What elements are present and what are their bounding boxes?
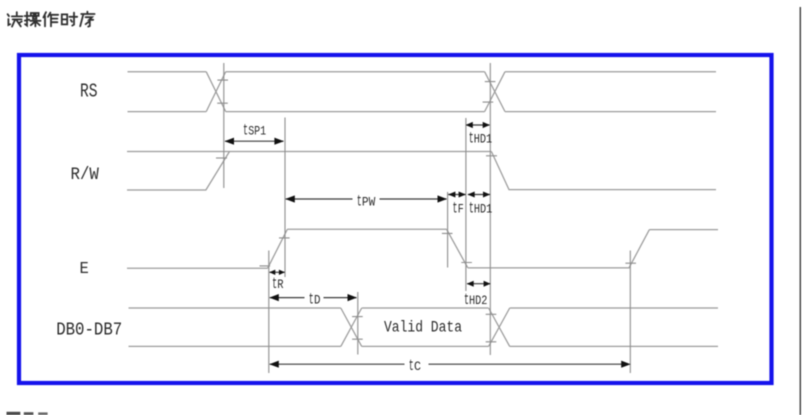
label tHD1 bottom <box>469 200 492 218</box>
E rising edge ticks <box>260 238 290 266</box>
E right high line <box>649 229 718 231</box>
label tSP1 <box>243 122 266 140</box>
vertical ref line at DB valid x=357.8 <box>357 292 359 355</box>
vertical ref line at E second rise x=630.3 <box>629 251 631 374</box>
vertical ref line at R/W high x=285 <box>284 118 286 278</box>
E falling edge ticks <box>442 233 472 262</box>
svg-text:PW: PW <box>362 195 376 209</box>
tPW dimension arrow <box>285 195 447 202</box>
DB left crossover ticks <box>352 317 363 340</box>
vertical ref line at RS right transition x=490.3 <box>489 63 491 355</box>
R/W falling edge + right low line <box>491 152 716 190</box>
E rising edge <box>268 229 288 268</box>
tF dimension arrows <box>448 192 466 198</box>
label tHD1 top <box>469 130 492 148</box>
tSP1 dimension arrow <box>225 138 284 145</box>
R/W waveform low line + rising edge <box>127 152 230 191</box>
DB right crossover ticks <box>486 314 497 342</box>
svg-text:HD2: HD2 <box>469 294 487 308</box>
title 读操作时序 (hand-drawn CJK strokes) <box>8 12 95 27</box>
blue frame <box>19 55 772 383</box>
svg-text:D: D <box>314 294 321 308</box>
svg-text:DB0-DB7: DB0-DB7 <box>56 319 122 341</box>
label tC <box>409 357 422 375</box>
DB top line segments <box>129 307 719 309</box>
E falling edge <box>447 229 468 267</box>
tC dimension arrow <box>269 361 630 368</box>
DB bottom line segments <box>129 345 719 347</box>
tHD1 top dimension arrow <box>466 122 490 128</box>
R/W falling edge tick <box>486 155 497 157</box>
char 读 <box>8 12 23 26</box>
char 操 <box>25 12 41 26</box>
label tF <box>453 200 464 218</box>
RS right crossover tick marks <box>483 82 496 103</box>
char 时 <box>62 13 77 26</box>
tR dimension arrows <box>269 270 285 275</box>
DB left crossover X <box>341 308 362 346</box>
svg-text:R/W: R/W <box>71 166 100 185</box>
svg-text:SP1: SP1 <box>248 125 266 139</box>
page right edge line <box>799 7 801 415</box>
svg-text:E: E <box>80 259 89 278</box>
char 序 <box>80 12 94 27</box>
DB right crossover X <box>489 308 510 346</box>
tHD1 bottom dimension arrows <box>468 192 491 198</box>
label tD <box>309 291 321 309</box>
svg-text:Valid Data: Valid Data <box>384 319 462 337</box>
RS left crossover tick marks <box>217 80 228 103</box>
RS right crossover X <box>485 72 505 112</box>
R/W rising edge tick <box>216 157 227 159</box>
E middle low line <box>468 267 629 269</box>
E second rising edge tick <box>625 262 636 264</box>
E waveform left low line <box>127 267 268 269</box>
bottom partial text (top edge of next title, cut off) <box>7 412 48 415</box>
vertical ref line at E low x=465.9 <box>465 118 467 291</box>
label tPW <box>357 192 376 210</box>
RS waveform high line segments <box>128 71 717 73</box>
label tR <box>272 275 284 293</box>
svg-text:HD1: HD1 <box>474 203 492 217</box>
R/W waveform top line <box>127 151 491 153</box>
RS waveform low line segments <box>128 111 717 113</box>
svg-text:RS: RS <box>80 80 98 102</box>
tHD2 dimension arrows <box>467 281 491 287</box>
char 作 <box>43 12 58 26</box>
svg-text:F: F <box>458 203 464 217</box>
label tHD2 <box>464 291 487 309</box>
vertical ref line at RS left transition x=223.8 <box>223 63 225 188</box>
E high line <box>287 228 446 230</box>
vertical ref line at E rise start x=268.8 <box>268 251 270 374</box>
E second rising edge <box>629 230 650 269</box>
svg-text:C: C <box>414 360 421 374</box>
tD dimension arrow <box>269 294 357 301</box>
vertical ref line at E fall start x=447.6 <box>447 192 449 268</box>
svg-text:R: R <box>277 278 284 292</box>
RS left crossover X <box>206 72 226 112</box>
svg-text:HD1: HD1 <box>474 133 492 147</box>
